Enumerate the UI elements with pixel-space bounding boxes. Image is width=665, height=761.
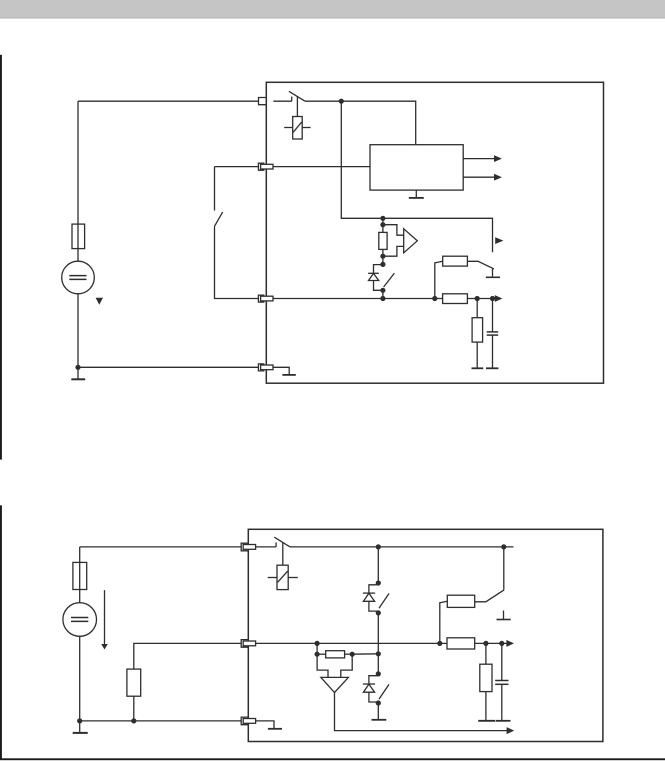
- junction dot feedback tap: [376, 651, 381, 656]
- diode V3 anode lead: [369, 676, 378, 684]
- ECU box outline (lower circuit): [248, 529, 603, 741]
- wire C2 bottom: [501, 684, 503, 721]
- relay K1 coil box: [284, 117, 310, 140]
- IC U1 ground: [409, 190, 424, 198]
- wire zener chain middle (crosses mid rail): [377, 611, 379, 654]
- resistor R1: [443, 256, 468, 266]
- diode V3 cathode lead: [369, 692, 378, 702]
- wire diode bottom to middle wire: [382, 290, 384, 298]
- diode V1 cathode lead: [374, 281, 383, 291]
- page bottom rule: [0, 758, 665, 760]
- junction dot middle wire at chain: [380, 296, 385, 301]
- junction dot top rail right branch: [501, 544, 506, 549]
- middle wire inside box: [273, 298, 443, 300]
- switch S2 blade: [215, 212, 223, 226]
- ground R4: [472, 367, 484, 369]
- fuse F2: [73, 562, 87, 589]
- wire R13 branch up: [440, 601, 448, 643]
- wire connector 2 out to switch S2: [215, 166, 259, 168]
- wire R14 bottom: [485, 692, 487, 721]
- wire top horizontal to connector: [78, 100, 259, 102]
- connector pin 7 plug body: [243, 719, 255, 724]
- wire C2 top: [501, 643, 503, 680]
- connector pin 3 plug body: [261, 296, 273, 301]
- ECU box outline (top circuit): [266, 82, 603, 383]
- mid rail end arrow: [506, 640, 514, 647]
- wire node A trunk down and right: [341, 101, 492, 252]
- wire load resistor bottom: [133, 696, 135, 721]
- op-amp U2 triangle: [404, 229, 418, 253]
- wire top horizontal to connector: [80, 546, 242, 548]
- feedback resistor R11 lead right: [345, 653, 353, 655]
- resistor R3: [379, 232, 387, 249]
- wire node B down: [382, 218, 384, 232]
- junction dot middle wire R1 branch: [432, 296, 437, 301]
- wire battery minus vertical: [79, 636, 81, 721]
- junction dot feedback right: [350, 652, 355, 657]
- junction battery minus node: [77, 718, 82, 723]
- relay K2 stub from blade: [282, 543, 284, 566]
- connector pin 5 plug body: [243, 545, 255, 550]
- diode V1 anode lead: [374, 265, 383, 274]
- connector pin 1 male pin: [273, 100, 291, 102]
- mid rail wire: [256, 642, 447, 644]
- connector pin 5 socket: [241, 543, 248, 551]
- wire zener chain upper: [377, 547, 379, 583]
- switch S4 contact: [486, 269, 500, 277]
- resistor R14: [480, 664, 492, 691]
- revision change bar upper: [0, 55, 2, 460]
- current direction arrow: [101, 590, 108, 649]
- wire connector 2 to IC: [273, 166, 370, 168]
- junction dot diode bottom: [380, 288, 385, 293]
- diode V2 cathode lead: [369, 601, 378, 611]
- wire switch to top rail: [290, 546, 514, 548]
- middle wire after R2: [467, 298, 495, 300]
- junction dot zener 2 bottom: [376, 700, 381, 705]
- ground C1: [486, 367, 498, 369]
- wire fuse to battery: [77, 249, 79, 262]
- diode V2 anode lead: [369, 585, 378, 593]
- feedback resistor R11 lead left: [317, 653, 326, 655]
- battery G2: [63, 603, 97, 637]
- wire zener chain to ground: [377, 702, 379, 720]
- junction dot R14 branch: [483, 641, 488, 646]
- load resistor R10: [127, 669, 141, 696]
- wire op-amp branch down: [316, 643, 318, 654]
- ground zener chain: [372, 719, 387, 721]
- ground at battery: [73, 721, 88, 733]
- wire connector 7 to ground: [256, 721, 274, 729]
- switch S8 blade: [475, 590, 505, 602]
- junction dot zener 2 top: [376, 671, 381, 676]
- switch S2 upper wire: [214, 167, 216, 211]
- op-amp U3 left input step: [317, 654, 328, 677]
- switch S8 open contact: [497, 611, 511, 620]
- switch S6 blade parallel to V2: [379, 594, 389, 609]
- relay K2 coil box: [268, 565, 298, 589]
- resistor R2: [443, 294, 468, 304]
- resistor R13: [447, 595, 474, 607]
- connector pin 2 plug body: [261, 164, 273, 169]
- junction dot op-amp branch: [315, 641, 320, 646]
- ground at connector 7: [268, 728, 282, 730]
- revision change bar lower: [0, 505, 2, 759]
- wire R4 top: [476, 299, 478, 318]
- wire switch to node A: [305, 100, 341, 102]
- switch S5 contact tick: [275, 542, 277, 547]
- connector pin 6 plug body: [243, 641, 255, 646]
- junction dot op-amp upper tap: [380, 222, 385, 227]
- wire C1 top: [492, 299, 494, 332]
- wire C1 bottom: [492, 335, 494, 368]
- wire load resistor top to middle wire: [134, 643, 241, 669]
- ground at battery: [71, 367, 85, 379]
- switch S5 blade: [274, 537, 290, 547]
- wire R1 branch up: [435, 261, 443, 298]
- current direction marker: [96, 298, 103, 305]
- switch S1 blade: [289, 91, 305, 101]
- wire bottom horizontal to connector: [78, 366, 259, 368]
- feedback resistor R11: [326, 651, 345, 658]
- wire bottom horizontal to connector: [80, 720, 242, 722]
- diode V3: [363, 684, 375, 692]
- op-amp U3 right input step: [341, 654, 352, 677]
- mid rail after R12: [475, 642, 507, 644]
- wire battery plus vertical: [77, 101, 79, 224]
- floating output arrow: [495, 237, 503, 244]
- resistor R12: [447, 638, 475, 649]
- junction dot op-amp lower tap: [380, 254, 385, 259]
- node A junction dot: [339, 99, 344, 104]
- junction dot C2 branch: [499, 641, 504, 646]
- connector pin 4 socket: [258, 364, 264, 371]
- op-amp U3 output wire: [335, 693, 508, 731]
- junction dot mid rail R12 branch: [437, 641, 442, 646]
- wire node A to IC top: [341, 101, 415, 145]
- switch S2 lower wire: [215, 226, 259, 298]
- fuse F1: [72, 224, 85, 249]
- ground R14: [478, 720, 495, 722]
- junction dot R4 branch: [475, 296, 480, 301]
- diode V1: [368, 273, 379, 280]
- op-amp U2 lower input lead: [383, 246, 404, 256]
- wire zener chain lower: [377, 654, 379, 674]
- resistor R4: [472, 318, 483, 342]
- switch S4 blade: [467, 261, 494, 269]
- switch S3 blade parallel to diode: [384, 273, 395, 287]
- junction battery minus node: [75, 365, 80, 370]
- connector pin 1 socket (unplugged): [259, 98, 267, 105]
- switch S1 contact tick: [291, 97, 293, 102]
- relay K1 stub from blade: [296, 97, 298, 117]
- IC output arrow 2: [463, 174, 502, 181]
- wire R4 bottom: [476, 342, 478, 368]
- capacitor C2: [495, 681, 508, 685]
- wire connector 5 to switch: [256, 546, 277, 548]
- diode V2: [363, 593, 375, 601]
- wire R3 bottom: [382, 249, 384, 264]
- ground C2: [496, 720, 511, 722]
- connector pin 2 socket: [258, 163, 264, 170]
- capacitor C1: [487, 332, 499, 335]
- junction dot zener 1 bottom: [376, 610, 381, 615]
- IC U1 box: [370, 145, 463, 190]
- switch S7 blade parallel to V3: [379, 684, 389, 699]
- wire battery minus vertical: [77, 294, 79, 368]
- junction dot load branch: [131, 718, 136, 723]
- middle wire end arrow: [495, 295, 503, 302]
- connector pin 3 socket: [258, 295, 264, 302]
- junction dot C1 branch: [490, 296, 495, 301]
- node B junction dot on trunk: [380, 216, 385, 221]
- connector pin 4 plug body: [261, 365, 273, 370]
- IC output arrow 1: [463, 155, 502, 162]
- wire fuse to battery: [79, 590, 81, 603]
- connector pin 7 socket: [241, 717, 248, 725]
- connector pin 6 socket: [241, 640, 248, 648]
- op-amp U2 upper input lead: [383, 225, 404, 236]
- junction dot top rail zener branch: [376, 544, 381, 549]
- junction dot diode top: [380, 262, 385, 267]
- wire top rail to switch S8: [503, 547, 505, 590]
- battery G1: [62, 261, 95, 294]
- ground at connector 4: [282, 374, 295, 376]
- wire feedback right to zener chain: [352, 653, 378, 655]
- wire battery plus vertical: [79, 547, 81, 563]
- junction dot zener 1 top: [376, 580, 381, 585]
- op-amp U3 triangle: [321, 677, 349, 692]
- wire R14 top: [485, 643, 487, 664]
- wire connector 4 to ground: [273, 367, 289, 375]
- junction dot feedback left: [315, 652, 320, 657]
- output arrow bottom: [507, 727, 515, 734]
- header gray bar: [0, 0, 665, 17]
